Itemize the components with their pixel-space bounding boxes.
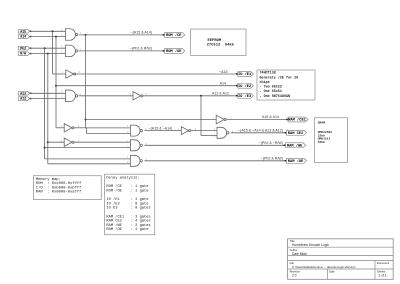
- svg-text:A14: A14: [220, 82, 226, 86]
- svg-text:Memory map:: Memory map:: [36, 177, 61, 182]
- svg-text:IO /E2 : 0 gate: IO /E2 : 0 gate: [106, 201, 148, 206]
- svg-text:Generate /CE for IO: Generate /CE for IO: [260, 75, 299, 80]
- svg-text:IO /E1: IO /E1: [238, 72, 252, 77]
- svg-text:RAM /OE : 1 gate: RAM /OE : 1 gate: [106, 227, 148, 232]
- svg-text:IO /E2: IO /E2: [238, 84, 251, 89]
- svg-text:~(A15 & ~A14 & A13 & A12): ~(A15 & ~A14 & A13 & A12): [238, 128, 283, 132]
- title block: [288, 239, 394, 279]
- wire A15 bus: [53, 31, 66, 74]
- port RAM /WE: [284, 143, 306, 149]
- svg-text:Delay analysis:: Delay analysis:: [106, 176, 139, 181]
- port RAM CE2: [285, 130, 307, 136]
- wire U13 out: [231, 132, 287, 134]
- svg-text:ROM /OE : 1 gate: ROM /OE : 1 gate: [106, 189, 148, 194]
- svg-text:- One 65c51: - One 65c51: [260, 90, 282, 94]
- inverter U3 ~A15: [62, 70, 81, 78]
- port A12: [18, 97, 65, 101]
- sram block U15: [315, 118, 348, 163]
- svg-text:IO E3 : 0 gates: IO E3 : 0 gates: [106, 207, 150, 211]
- svg-text:Dale Miah: Dale Miah: [292, 252, 307, 256]
- svg-text:A14: A14: [20, 35, 26, 39]
- svg-text:64kb: 64kb: [318, 140, 325, 144]
- wire A14 bus: [55, 37, 238, 128]
- svg-text:Document: Document: [377, 261, 390, 265]
- svg-text:~(A15 & A14): ~(A15 & A14): [131, 31, 152, 35]
- wire U12 out: [226, 119, 288, 121]
- nand U13 4-input decode: [214, 127, 234, 138]
- port IO /E1: [236, 72, 254, 78]
- svg-text:A13: A13: [20, 91, 26, 95]
- label ~(Ph2 & R/W): [130, 47, 152, 51]
- svg-text:RAM /OE: RAM /OE: [288, 159, 304, 164]
- svg-text:R/W: R/W: [20, 52, 26, 56]
- svg-text:ROM /OE: ROM /OE: [166, 49, 182, 54]
- wire U7 out: [74, 141, 131, 143]
- svg-text:A12: A12: [20, 97, 26, 101]
- label ~(A15 & A14): [131, 31, 152, 35]
- port R/W: [18, 52, 65, 56]
- port IO /E3: [236, 93, 254, 99]
- svg-text:RAM : 0x0000-0xafff: RAM : 0x0000-0xafff: [36, 190, 82, 195]
- label ~(A15 & ~A14): [149, 126, 173, 130]
- wire U10 out: [144, 144, 285, 146]
- svg-text:Ph2: Ph2: [20, 46, 26, 50]
- label A14: [220, 82, 226, 86]
- wire U2 out: [79, 50, 165, 52]
- label A15 & A14: [262, 115, 279, 119]
- label ~A15: [219, 70, 228, 74]
- port RAM /OE: [285, 158, 307, 164]
- svg-text:I/O : 0xb000-0xbfff: I/O : 0xb000-0xbfff: [36, 185, 82, 190]
- nand U11 ~(Ph2 & R/W): [127, 155, 147, 166]
- svg-text:27C512 64kb: 27C512 64kb: [207, 43, 235, 48]
- svg-text:~(Ph2 & R/W): ~(Ph2 & R/W): [130, 47, 152, 51]
- port RAM /CE1: [286, 117, 308, 123]
- port IO /E2: [236, 83, 254, 89]
- svg-text:ROM : 0xc000-0xffff: ROM : 0xc000-0xffff: [36, 181, 82, 186]
- svg-text:~A15: ~A15: [219, 70, 228, 74]
- inverter U5 A13&A12: [130, 92, 148, 100]
- svg-text:ROM /CE : 1 gate: ROM /CE : 1 gate: [106, 184, 148, 189]
- note delay analysis: [104, 174, 154, 235]
- inverter U12 A15&A14: [213, 115, 232, 124]
- svg-text:A15: A15: [20, 29, 26, 33]
- svg-text:~(Ph2 & ~R/W): ~(Ph2 & ~R/W): [259, 141, 283, 145]
- port ROM /CE: [163, 32, 185, 38]
- note memory map: [34, 176, 102, 200]
- nand U1 ~(A15 & A14): [61, 29, 81, 41]
- svg-text:A13 & A12: A13 & A12: [212, 92, 229, 96]
- nand U10 ~(Ph2 & ~R/W): [127, 140, 147, 151]
- port A13: [18, 91, 65, 95]
- wire U8 out: [144, 130, 181, 132]
- inverter U6 ~A14: [61, 124, 80, 132]
- wire U11 out: [144, 160, 286, 162]
- label ~(Ph2 & ~R/W): [259, 141, 283, 145]
- svg-text:RAM CE2: RAM CE2: [288, 132, 304, 136]
- svg-text:Date: Date: [329, 270, 335, 274]
- label A13 & A12: [212, 92, 229, 96]
- svg-text:RAM /WE: RAM /WE: [287, 143, 303, 148]
- svg-text:2.0: 2.0: [292, 273, 297, 277]
- svg-text:- One SN76489AN: - One SN76489AN: [260, 95, 291, 99]
- wire U5 out / IO E3 net: [143, 95, 238, 136]
- svg-text:chips: chips: [260, 80, 270, 85]
- svg-text:A15 & A14: A15 & A14: [262, 115, 279, 119]
- svg-text:74HCT138: 74HCT138: [260, 72, 276, 76]
- svg-text:- Two 65C22: - Two 65C22: [260, 86, 282, 90]
- svg-text:32kb: 32kb: [318, 133, 325, 137]
- svg-text:IO /E1 : 1 gate: IO /E1 : 1 gate: [106, 197, 148, 202]
- wire R/W bus: [47, 54, 131, 164]
- svg-text:Homebrew Decode Logic: Homebrew Decode Logic: [292, 243, 329, 247]
- svg-text:IO /E3: IO /E3: [238, 94, 252, 99]
- wire U9 out: [191, 130, 217, 132]
- label ~(Ph2 & R/W) ram oe: [261, 157, 283, 161]
- svg-text:SRAM: SRAM: [318, 120, 326, 124]
- nand U2 ~(Ph2 & R/W): [61, 45, 81, 57]
- svg-text:~(A15 & ~A14): ~(A15 & ~A14): [149, 126, 173, 130]
- svg-text:RAM /WE : 2 gates: RAM /WE : 2 gates: [106, 223, 150, 228]
- svg-text:RAM /CE1: RAM /CE1: [288, 118, 306, 123]
- nand U8 ~(A15 & ~A14): [127, 125, 147, 136]
- wire U3 out: [74, 73, 237, 75]
- port A14: [18, 35, 65, 39]
- svg-text:ROM /CE: ROM /CE: [166, 33, 182, 38]
- port Ph2: [18, 46, 65, 50]
- svg-text:1 of 1: 1 of 1: [379, 273, 387, 277]
- port A15: [18, 29, 65, 33]
- svg-text:C:\Users\Dale\Docume.... deco: C:\Users\Dale\Docume.... decode-logic-v0…: [292, 265, 356, 269]
- inverter U9: [178, 127, 197, 135]
- label ~(A15 & ~A14 & A13 & A12): [238, 128, 283, 132]
- wire Ph2 bus: [44, 48, 131, 159]
- svg-text:RAM /CE1 : 3 gates: RAM /CE1 : 3 gates: [106, 214, 150, 219]
- port ROM /OE: [163, 48, 185, 54]
- wire U4 out: [79, 95, 133, 97]
- eeprom block U14: [191, 29, 246, 55]
- nand U4 ~(A13 & A12): [61, 90, 81, 102]
- wire U6 out: [74, 128, 131, 134]
- svg-text:~(Ph2 & R/W): ~(Ph2 & R/W): [261, 157, 283, 161]
- note 74HCT138 decoder: [257, 70, 315, 100]
- wire U1 out / ROM CE net: [79, 34, 217, 128]
- inverter U7 ~R/W: [61, 138, 80, 146]
